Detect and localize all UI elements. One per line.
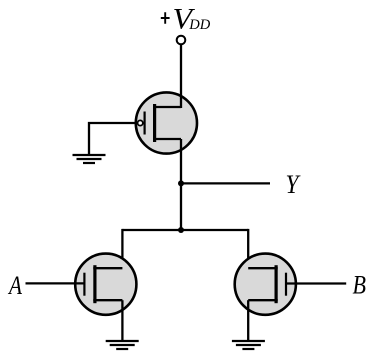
wire to output Y [181, 182, 270, 184]
wire Q1 gate to ground [89, 123, 137, 155]
ground (Q2 source) [106, 341, 139, 349]
junction (drain branch) [178, 227, 184, 233]
wire input A to Q2 gate [26, 282, 85, 284]
svg-text:DD: DD [188, 17, 210, 33]
wire branch to Q2 and Q3 drains [122, 229, 248, 231]
wire Q1 source to output node [180, 139, 182, 230]
ground (Q1 gate) [73, 155, 106, 163]
wire Q3 source to ground [247, 300, 249, 341]
svg-text:Y: Y [286, 170, 301, 199]
transistor Q3 (NMOS input B) [235, 254, 296, 315]
transistor Q1 (PMOS load) [136, 92, 197, 153]
svg-text:A: A [7, 271, 22, 300]
wire branch to Q3 drain [247, 229, 249, 268]
wire branch to Q2 drain [121, 229, 123, 268]
node +VDD label [161, 2, 211, 35]
VDD terminal (open circle) [177, 36, 186, 45]
ground (Q3 source) [232, 341, 265, 349]
wire Q3 gate to input B [286, 282, 346, 284]
junction node Y [178, 180, 184, 186]
svg-text:B: B [353, 270, 367, 299]
transistor Q2 (NMOS input A) [75, 254, 136, 315]
Q1 gate bubble [138, 120, 143, 125]
wire Q2 source to ground [121, 300, 123, 341]
wire VDD to Q1 drain [180, 44, 182, 108]
